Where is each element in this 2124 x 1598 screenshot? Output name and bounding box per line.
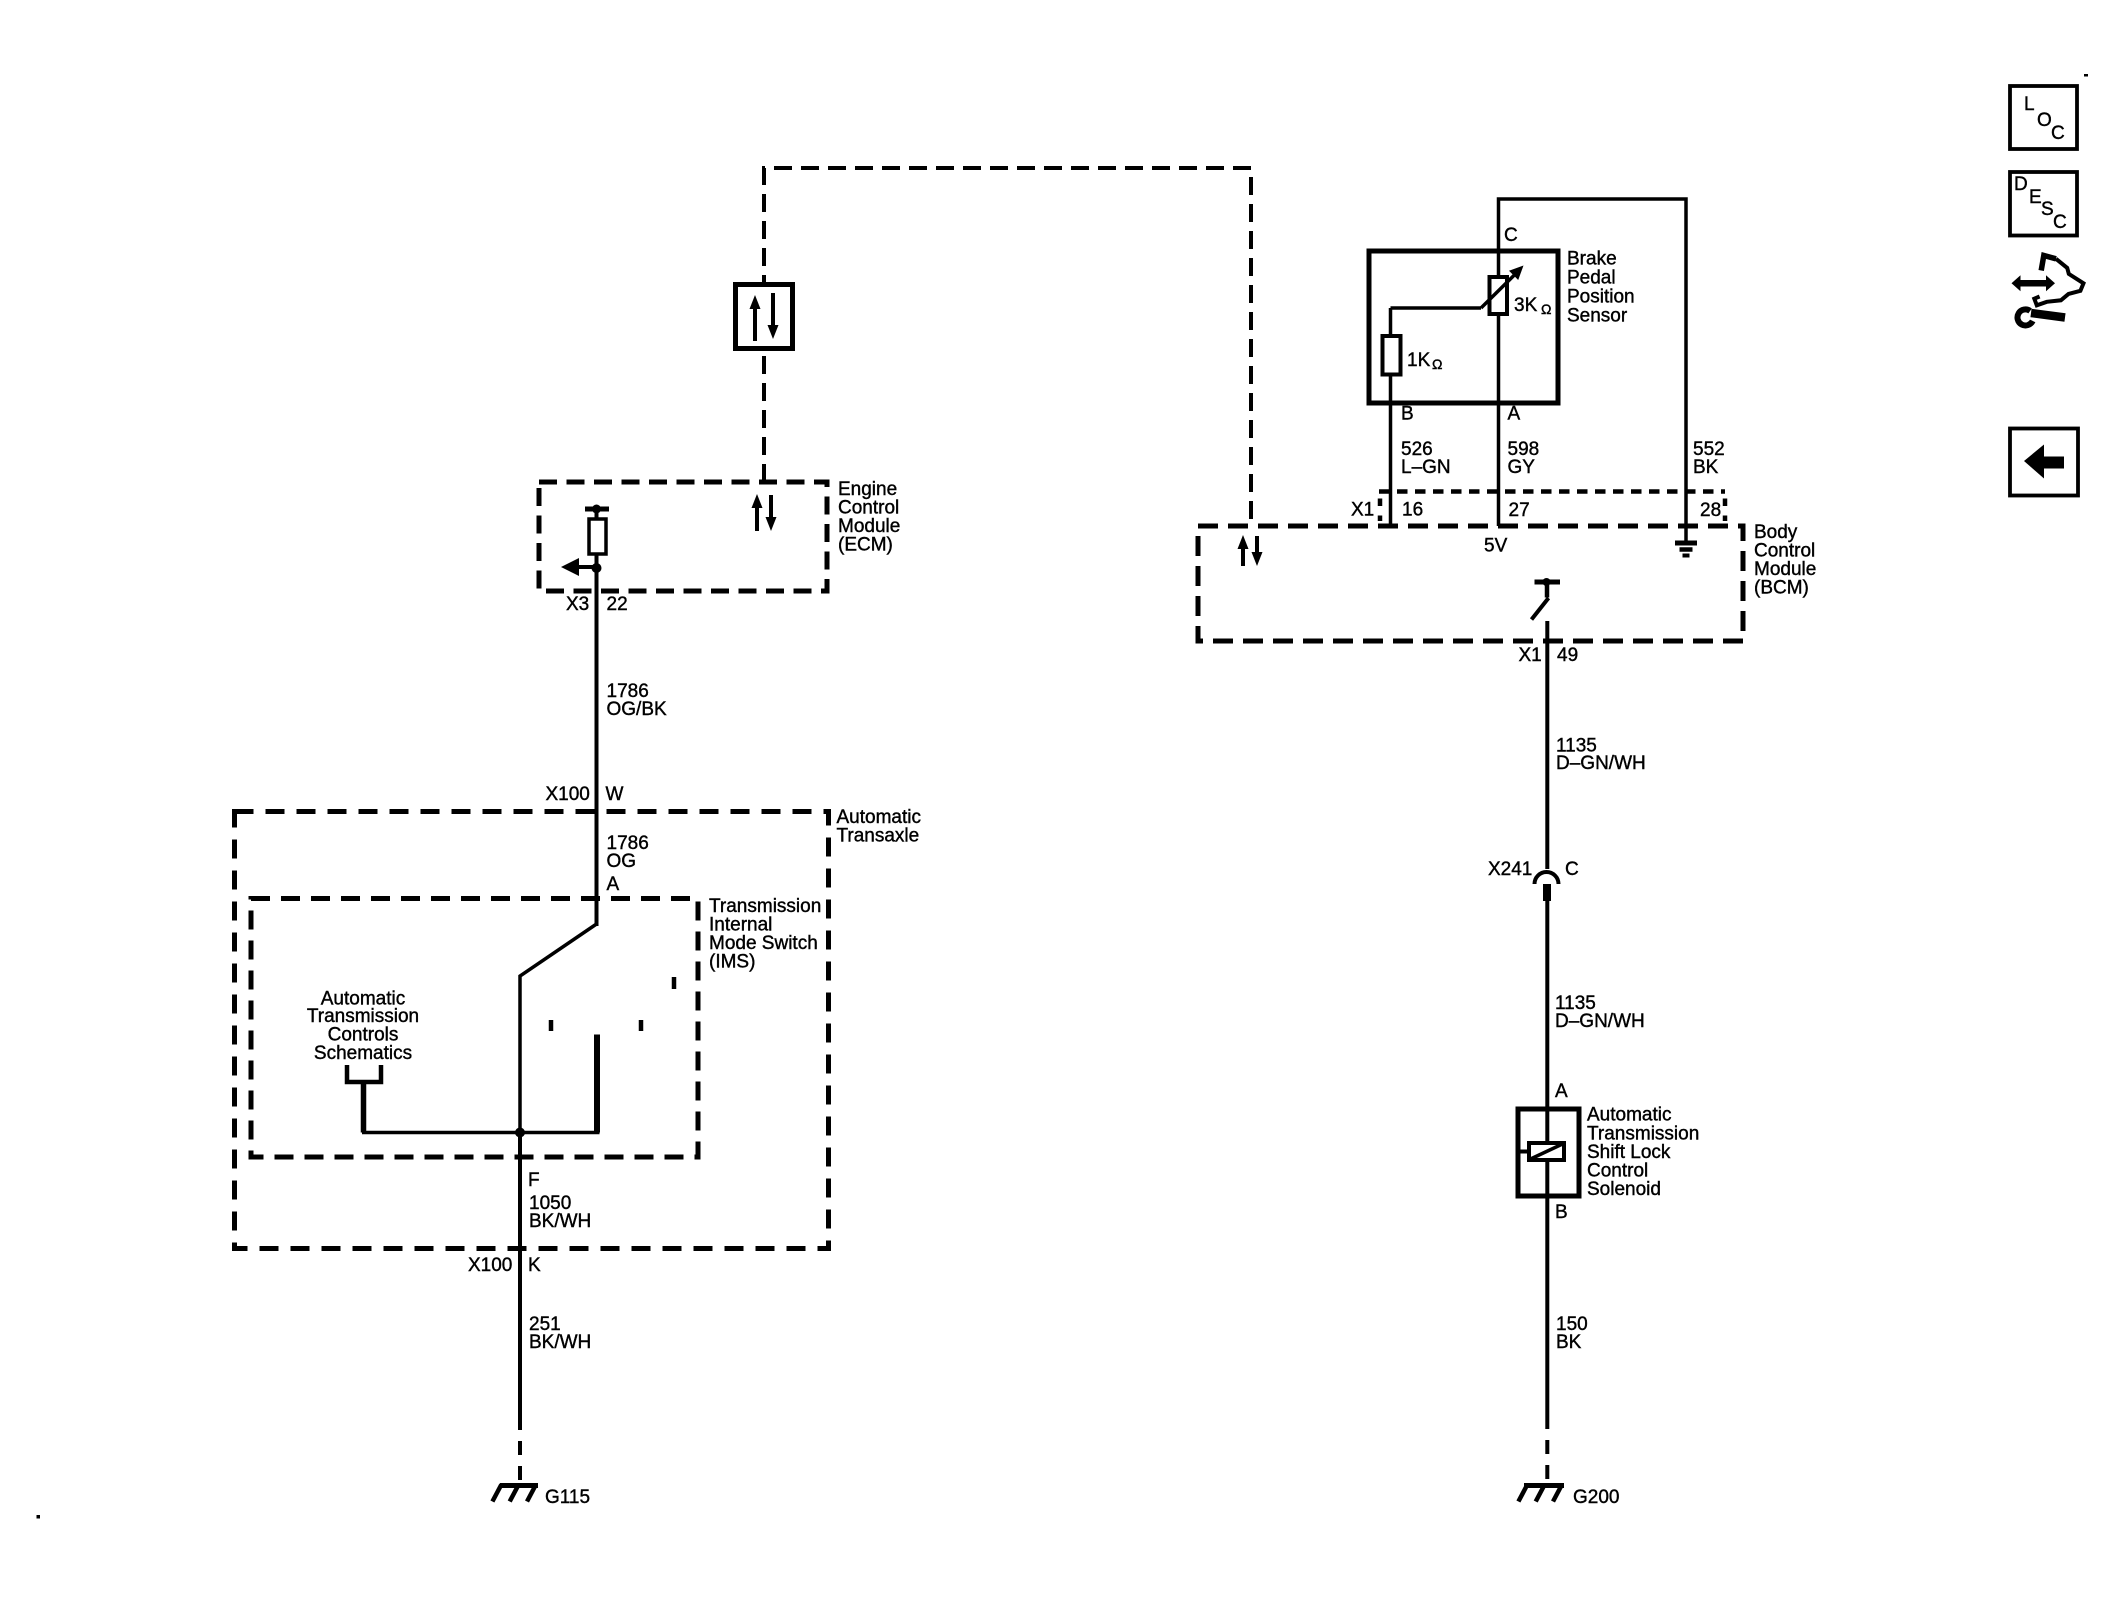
svg-text:A: A bbox=[1555, 1081, 1568, 1102]
svg-text:X241: X241 bbox=[1488, 859, 1532, 880]
svg-text:A: A bbox=[1508, 404, 1521, 425]
X1 49 labels bbox=[1519, 645, 1579, 666]
svg-text:Sensor: Sensor bbox=[1567, 306, 1628, 327]
1135 D-GN/WH label bbox=[1556, 736, 1646, 775]
resistor in ECM bbox=[589, 519, 606, 554]
svg-text:5V: 5V bbox=[1484, 536, 1508, 557]
svg-text:L: L bbox=[2024, 94, 2035, 115]
svg-text:Automatic: Automatic bbox=[1587, 1105, 1671, 1126]
junction dot bbox=[592, 563, 602, 573]
wire 598 GY (pin A) bbox=[1497, 314, 1501, 526]
output arrow left bbox=[561, 558, 597, 576]
IMS switch blade wire bbox=[520, 924, 597, 1133]
BCM box (dashed) bbox=[1198, 526, 1743, 641]
svg-text:16: 16 bbox=[1402, 500, 1423, 521]
wire 1135 lower bbox=[1545, 901, 1549, 1415]
contact tick 1 bbox=[549, 1020, 554, 1031]
3K ohm label bbox=[1514, 295, 1551, 317]
1050 BK/WH label bbox=[529, 1193, 591, 1232]
resistor 1K bbox=[1383, 336, 1401, 375]
junction dot F bbox=[515, 1128, 525, 1138]
svg-text:X3: X3 bbox=[566, 594, 589, 615]
wire dashed serial-data link ECM to BCM bbox=[764, 168, 1251, 524]
bracket stem wire bbox=[361, 1082, 367, 1133]
IMS horizontal wire bbox=[362, 1131, 600, 1135]
brake pedal position sensor box bbox=[1369, 251, 1558, 403]
X1 16 27 28 labels bbox=[1351, 500, 1721, 522]
svg-text:S: S bbox=[2041, 199, 2054, 220]
svg-text:Ω: Ω bbox=[1432, 356, 1442, 372]
svg-text:W: W bbox=[606, 784, 624, 805]
dashed wire to G115 bbox=[518, 1416, 522, 1484]
svg-text:Transaxle: Transaxle bbox=[837, 826, 920, 847]
dashed wire to G200 bbox=[1545, 1415, 1549, 1484]
svg-text:Position: Position bbox=[1567, 287, 1635, 308]
speck bottom left bbox=[37, 1515, 41, 1519]
svg-text:C: C bbox=[1565, 859, 1579, 880]
wire bar to resistor bbox=[595, 509, 599, 568]
svg-text:GY: GY bbox=[1508, 457, 1536, 478]
svg-text:X100: X100 bbox=[468, 1255, 512, 1276]
X241 C labels bbox=[1488, 859, 1579, 880]
svg-text:E: E bbox=[2029, 187, 2042, 208]
svg-text:BK/WH: BK/WH bbox=[529, 1211, 591, 1232]
svg-text:Brake: Brake bbox=[1567, 249, 1617, 270]
X100 W connector labels bbox=[546, 784, 624, 805]
contact tick 3 bbox=[672, 977, 677, 989]
svg-text:BK/WH: BK/WH bbox=[529, 1332, 591, 1353]
solenoid symbol bbox=[1519, 1143, 1564, 1160]
svg-text:G200: G200 bbox=[1573, 1487, 1619, 1508]
552 BK label bbox=[1693, 439, 1725, 478]
IMS label bbox=[709, 896, 821, 973]
svg-text:Ω: Ω bbox=[1541, 301, 1551, 317]
BCM serial data arrows bbox=[1238, 535, 1263, 566]
svg-text:L–GN: L–GN bbox=[1401, 457, 1451, 478]
150 BK label bbox=[1556, 1314, 1588, 1353]
svg-text:B: B bbox=[1555, 1202, 1568, 1223]
X3 22 pin labels bbox=[566, 594, 628, 615]
1786 OG label bbox=[607, 833, 649, 872]
X100 K connector labels bbox=[468, 1255, 541, 1276]
svg-text:Pedal: Pedal bbox=[1567, 268, 1616, 289]
svg-text:BK: BK bbox=[1556, 1332, 1582, 1353]
Automatic Transmission Controls Schematics label bbox=[307, 989, 419, 1065]
ground symbol in BCM bbox=[1675, 526, 1697, 556]
wire 1050 BK/WH bbox=[518, 1133, 522, 1417]
svg-text:X1: X1 bbox=[1519, 645, 1542, 666]
ECM internal driver bar bbox=[585, 507, 609, 512]
svg-text:C: C bbox=[2051, 123, 2065, 144]
svg-text:K: K bbox=[528, 1255, 541, 1276]
ground G115 bbox=[492, 1485, 538, 1502]
svg-text:G115: G115 bbox=[545, 1487, 590, 1508]
svg-text:D–GN/WH: D–GN/WH bbox=[1555, 1011, 1645, 1032]
svg-text:Schematics: Schematics bbox=[314, 1043, 412, 1064]
svg-text:X100: X100 bbox=[546, 784, 590, 805]
LOC icon bbox=[2010, 86, 2077, 149]
svg-text:(ECM): (ECM) bbox=[838, 535, 893, 556]
ECM label bbox=[838, 479, 900, 556]
ground G200 bbox=[1518, 1485, 1564, 1502]
sensor label bbox=[1567, 249, 1635, 327]
wire 1786 OG/BK bbox=[595, 568, 599, 926]
svg-text:X1: X1 bbox=[1351, 500, 1374, 521]
1135 D-GN/WH label 2 bbox=[1555, 993, 1645, 1032]
svg-text:22: 22 bbox=[607, 594, 628, 615]
back arrow icon bbox=[2010, 429, 2078, 496]
svg-text:Solenoid: Solenoid bbox=[1587, 1179, 1661, 1200]
contact tick 2 bbox=[639, 1020, 644, 1031]
speck top right bbox=[2084, 74, 2088, 77]
svg-text:D–GN/WH: D–GN/WH bbox=[1556, 753, 1646, 774]
svg-text:BK: BK bbox=[1693, 457, 1719, 478]
BCM label bbox=[1754, 522, 1816, 599]
svg-text:A: A bbox=[607, 874, 620, 895]
svg-text:C: C bbox=[2053, 212, 2067, 233]
svg-text:(BCM): (BCM) bbox=[1754, 578, 1809, 599]
solenoid label bbox=[1587, 1105, 1699, 1201]
node dot on bar bbox=[592, 505, 601, 514]
wiper wire bbox=[1391, 306, 1482, 310]
svg-text:49: 49 bbox=[1557, 645, 1578, 666]
switch contact stub bbox=[594, 1035, 600, 1133]
Automatic Transaxle box (dashed) bbox=[235, 812, 829, 1249]
solenoid box bbox=[1518, 1109, 1579, 1196]
svg-text:F: F bbox=[528, 1170, 540, 1191]
IMS box (dashed) bbox=[251, 899, 698, 1158]
svg-text:OG: OG bbox=[607, 851, 637, 872]
svg-text:C: C bbox=[1504, 225, 1518, 246]
X1 connector dotted line bbox=[1379, 489, 1725, 494]
X1 connector left stub bbox=[1378, 499, 1383, 522]
svg-text:28: 28 bbox=[1700, 500, 1721, 521]
connector X241 bbox=[1535, 872, 1559, 901]
svg-text:3K: 3K bbox=[1514, 295, 1538, 316]
svg-text:D: D bbox=[2014, 174, 2028, 195]
DESC icon bbox=[2010, 172, 2077, 236]
1K ohm label bbox=[1407, 350, 1442, 372]
data link connector symbol on wire bbox=[736, 285, 793, 349]
1786 OG/BK label bbox=[607, 681, 668, 720]
ECM box (dashed) bbox=[539, 482, 827, 591]
B A pin labels bbox=[1401, 404, 1521, 425]
potentiometer 3K bbox=[1490, 277, 1508, 314]
251 BK/WH label bbox=[529, 1314, 591, 1353]
wire X1 49 bbox=[1545, 621, 1549, 869]
svg-text:O: O bbox=[2037, 110, 2052, 131]
svg-text:(IMS): (IMS) bbox=[709, 952, 755, 973]
wire 552 BK loop bbox=[1499, 199, 1687, 526]
Automatic Transaxle label bbox=[837, 807, 921, 847]
526 L-GN label bbox=[1401, 439, 1451, 478]
ECM serial data arrows bbox=[752, 494, 777, 531]
svg-text:1K: 1K bbox=[1407, 350, 1431, 371]
hotlink icon bbox=[2012, 256, 2084, 326]
X1 connector right stub bbox=[1723, 499, 1728, 522]
svg-text:B: B bbox=[1401, 404, 1414, 425]
BCM switch bbox=[1532, 578, 1561, 620]
schematic link bracket bbox=[347, 1065, 381, 1082]
svg-text:27: 27 bbox=[1509, 500, 1530, 521]
598 GY label bbox=[1508, 439, 1540, 478]
svg-text:OG/BK: OG/BK bbox=[607, 699, 668, 720]
wire 526 L-GN (pin B) bbox=[1389, 308, 1393, 526]
